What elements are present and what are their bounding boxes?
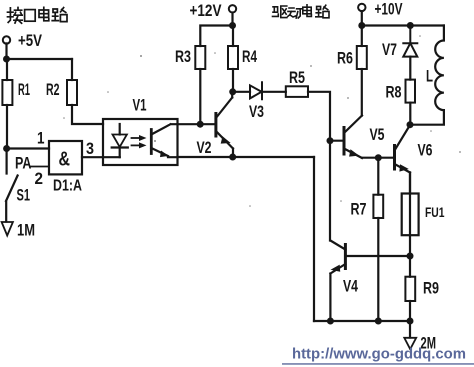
optocoupler arrow 1 [132, 137, 140, 139]
terminal +10V [358, 4, 365, 11]
svg-text:V5: V5 [370, 125, 385, 144]
wire +10V lead [361, 11, 363, 25]
label 接口电路 [8, 7, 68, 23]
transistor V6 [393, 146, 396, 170]
scan speckles (decorative) [63, 35, 461, 207]
fuse FU1 [409, 173, 411, 257]
transistor V2 [214, 114, 217, 137]
wire V3 anode lead [233, 91, 250, 93]
node V2 emitter [229, 154, 236, 161]
node V4 emitter on rail [327, 318, 334, 325]
wire R3 top to +12V rail [200, 26, 232, 47]
optocoupler arrow 2 [132, 144, 140, 146]
resistor R2 [67, 80, 77, 105]
transistor V5 [343, 128, 346, 155]
svg-text:V1: V1 [133, 96, 147, 115]
wire R5 to V5 base node [308, 92, 330, 141]
node V7 top [407, 22, 414, 29]
resistor R4 [228, 46, 238, 69]
svg-text:S1: S1 [17, 186, 31, 205]
optocoupler LED branch [119, 124, 121, 135]
node PA [3, 145, 10, 152]
optocoupler V1 box [103, 119, 178, 165]
wire V2 emitter return [313, 157, 315, 321]
wire +12V lead [231, 13, 233, 26]
node +10V rail [358, 22, 365, 29]
node +12V rail [229, 22, 236, 29]
svg-text:PA: PA [15, 154, 32, 173]
node V5 base / V4 collector [327, 137, 334, 144]
node R9 bottom [407, 318, 414, 325]
svg-text:V7: V7 [382, 40, 397, 59]
diode V3 [250, 82, 262, 99]
svg-text:R3: R3 [175, 47, 191, 66]
wire R6 to V5 collector [361, 69, 363, 116]
svg-text:V6: V6 [418, 141, 433, 160]
wire bottom rail [314, 320, 410, 322]
svg-text:R6: R6 [337, 49, 353, 68]
wire R2 to optocoupler anode [72, 105, 103, 124]
resistor R6 [357, 46, 367, 69]
resistor R9 [409, 256, 411, 277]
switch S1 [6, 149, 18, 222]
svg-text:R9: R9 [423, 279, 439, 298]
node +5V rail [3, 56, 10, 63]
svg-text:R5: R5 [289, 68, 305, 87]
wire +5V top rail [7, 58, 73, 60]
inductor L [410, 26, 444, 125]
svg-text:D1:A: D1:A [53, 178, 82, 195]
resistor R3 [195, 46, 205, 69]
resistor R8 [406, 80, 416, 103]
resistor R5 [286, 86, 308, 97]
svg-text:&: & [59, 149, 71, 171]
ground 2M [404, 338, 416, 349]
watermark underline [282, 363, 474, 365]
wire +5V down to rail [5, 43, 7, 59]
wire R7 bottom [377, 158, 379, 321]
wire optocoupler collector to V2 base [178, 123, 216, 125]
svg-text:http://www.go-gddq.com: http://www.go-gddq.com [292, 347, 466, 363]
svg-text:+5V: +5V [18, 31, 43, 50]
wire +10V rail to inductor [362, 24, 444, 26]
wire PA to gate pin 1 [7, 147, 49, 149]
wire R1 top lead [6, 59, 8, 80]
wire R3 bottom lead [199, 69, 201, 124]
node R7 top [375, 154, 382, 161]
node R7 bottom [375, 318, 382, 325]
svg-text:R8: R8 [386, 83, 402, 102]
pin 2 stub [31, 166, 49, 168]
svg-text:R7: R7 [351, 200, 367, 219]
svg-text:R2: R2 [46, 80, 60, 99]
diode V7 [403, 26, 417, 57]
wire to ground 2M [409, 321, 411, 338]
svg-text:+10V: +10V [375, 0, 403, 19]
transistor V4 [344, 245, 347, 269]
node FU1 / R9 / V4 base [407, 253, 414, 260]
label 驱动电路 [273, 5, 330, 18]
ground 1M [2, 222, 13, 236]
terminal +5V [3, 36, 10, 43]
svg-text:V2: V2 [197, 138, 212, 157]
svg-text:L: L [426, 67, 433, 86]
wire V4 collector to V5 base [329, 141, 331, 241]
resistor R7 [373, 195, 383, 218]
resistor R1 [2, 80, 12, 105]
svg-text:V4: V4 [343, 277, 358, 296]
wire R4 top lead [232, 26, 234, 47]
wire V5 emitter to V6 base [362, 157, 395, 159]
svg-text:3: 3 [86, 139, 94, 158]
svg-text:2: 2 [35, 169, 44, 188]
terminal +12V [229, 5, 236, 12]
node V6 collector / R8 / L [407, 121, 414, 128]
svg-text:R4: R4 [242, 47, 257, 66]
wire V3 to R5 [262, 91, 286, 93]
optocoupler LED [113, 135, 127, 147]
wire V7 to R8 [409, 57, 411, 80]
svg-text:+12V: +12V [190, 1, 223, 20]
svg-text:FU1: FU1 [425, 204, 445, 220]
wire R2 top lead [71, 59, 73, 80]
wire V2 emitter rail [178, 156, 315, 158]
and-gate D1:A [49, 141, 82, 174]
wire gate pin 3 to optocoupler cathode [82, 156, 120, 158]
wire R1 bottom lead [6, 105, 8, 149]
node R4 / V2 collector / V3 anode [229, 88, 236, 95]
wire R6 top lead [361, 26, 363, 47]
svg-text:1M: 1M [17, 221, 35, 240]
optocoupler phototransistor [150, 130, 153, 154]
wire R8 bottom lead [409, 103, 411, 125]
wire R4 bottom lead [232, 69, 234, 92]
svg-text:1: 1 [37, 129, 45, 148]
svg-text:V3: V3 [249, 102, 264, 121]
svg-text:R1: R1 [18, 80, 30, 99]
node R3 bottom / V2 base [197, 121, 204, 128]
